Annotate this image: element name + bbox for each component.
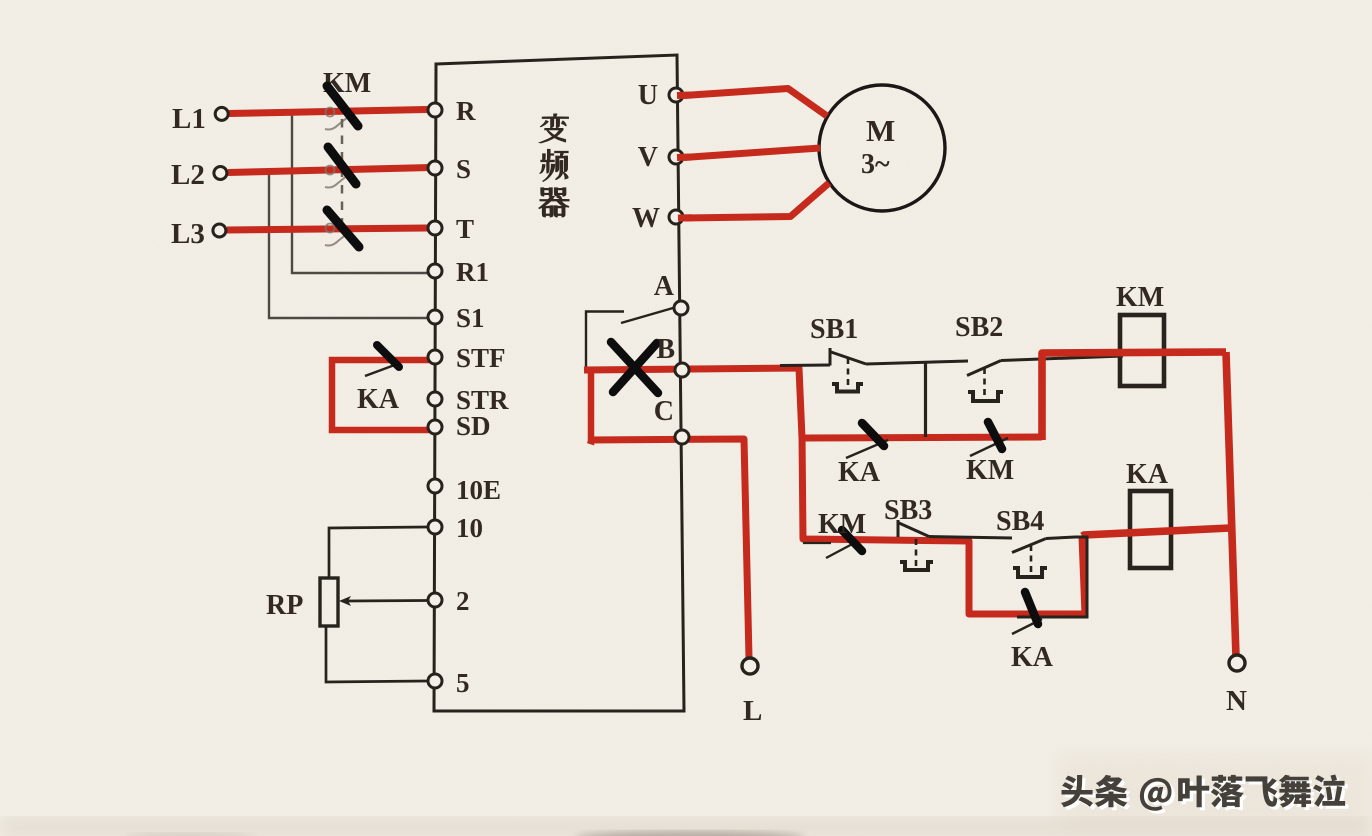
inverter U1 变频器 box: [434, 55, 684, 711]
wire SB2 to KM coil printed: [1001, 356, 1123, 361]
svg-text:S1: S1: [456, 303, 485, 333]
terminal L: [742, 658, 762, 727]
svg-text:KA: KA: [838, 457, 881, 488]
svg-text:KM: KM: [966, 455, 1014, 486]
svg-text:10E: 10E: [456, 475, 501, 505]
terminal R1: [428, 257, 489, 287]
contactor KM main contacts (faint printed symbols): [325, 108, 348, 246]
wire printed under lower red: [803, 542, 831, 544]
svg-text:5: 5: [456, 668, 470, 698]
pushbutton SB2 (NO start): [955, 312, 1003, 401]
svg-text:U: U: [638, 80, 658, 111]
svg-text:V: V: [638, 142, 658, 173]
wire 5-RP: [326, 626, 429, 682]
svg-text:KM: KM: [1116, 282, 1164, 313]
terminal R: [428, 96, 476, 126]
relay contact A (inverter run output): [586, 308, 673, 368]
contactor contact KM (latch): [966, 422, 1014, 486]
pushbutton SB4 (NO): [996, 506, 1047, 577]
wire 10-RP: [329, 527, 429, 578]
relay contact KA (STF) mark: [377, 345, 399, 367]
potentiometer RP: [320, 578, 338, 626]
terminal 10: [428, 513, 483, 543]
watermark 头条@叶落飞舞泣: [1061, 774, 1348, 813]
wire RP wiper arrow from 2: [339, 596, 428, 606]
relay contact KA (SB4 parallel): [1011, 592, 1054, 673]
wire C red to L: [588, 439, 749, 658]
terminal N: [1226, 655, 1247, 717]
wire W red stub: [678, 214, 692, 221]
terminal L1: [172, 103, 228, 135]
relay contact KA (latch): [838, 423, 888, 488]
terminal V: [638, 142, 683, 173]
svg-text:SB4: SB4: [996, 506, 1044, 537]
pushbutton SB3 (NC): [884, 495, 933, 570]
svg-text:10: 10: [456, 513, 483, 543]
contactor KM contact mark phase R: [327, 86, 358, 126]
X mark over B contact: [611, 342, 658, 393]
motor M1: [819, 85, 945, 211]
wire latch branch to KM coil red: [1042, 352, 1226, 440]
terminal SD: [428, 411, 491, 441]
terminal 10E: [428, 475, 501, 505]
svg-text:L1: L1: [172, 103, 206, 135]
terminal L2: [171, 159, 227, 191]
wire V-motor red: [684, 148, 820, 158]
label KM (main contacts): [323, 68, 371, 99]
svg-text:L2: L2: [171, 159, 205, 191]
svg-text:STF: STF: [456, 343, 506, 373]
terminal W: [632, 203, 683, 234]
svg-text:R: R: [456, 96, 476, 126]
svg-text:SB2: SB2: [955, 312, 1003, 343]
relay contact KA (STF) blade: [365, 363, 400, 376]
wire W-motor red: [684, 183, 829, 218]
wire S1 tap: [269, 171, 429, 318]
contactor KM contact mark phase S: [328, 147, 356, 184]
wire SB1-SB2 printed: [866, 361, 968, 364]
svg-text:L: L: [743, 695, 762, 727]
terminal STR: [428, 385, 509, 415]
junction wire SB1/SB2 to latch branch: [924, 362, 927, 437]
contactor KM contact mark phase T: [327, 210, 359, 247]
wire B red bus to control: [584, 368, 1042, 438]
svg-text:KA: KA: [357, 384, 400, 415]
wire L1-R red: [229, 110, 429, 114]
wire SB4 right to KA coil red: [1082, 528, 1230, 536]
wire U-motor red: [684, 89, 827, 117]
wire B bus down-left red (lower row): [802, 435, 1085, 614]
terminal B: [656, 334, 689, 377]
svg-text:KM: KM: [818, 509, 866, 540]
svg-text:KA: KA: [1126, 459, 1169, 490]
svg-text:T: T: [456, 214, 474, 244]
label RP: [266, 590, 303, 621]
pushbutton SB1 (NC stop): [810, 314, 866, 392]
svg-text:C: C: [654, 396, 674, 427]
terminal STF: [428, 343, 506, 373]
terminal L3: [171, 218, 226, 250]
svg-text:M: M: [866, 113, 895, 148]
svg-text:B: B: [656, 334, 675, 365]
terminal 2: [428, 586, 470, 616]
svg-text:W: W: [632, 203, 660, 234]
wire B-C red loop: [588, 371, 591, 441]
svg-text:SB1: SB1: [810, 314, 858, 345]
relay coil KA: [1126, 459, 1171, 568]
wire L2-S red: [228, 168, 429, 173]
terminal S1: [428, 303, 485, 333]
terminal T: [428, 214, 474, 244]
terminal 5: [428, 668, 470, 698]
svg-text:N: N: [1226, 685, 1247, 717]
wire SB3-SB4 printed: [929, 537, 1012, 539]
terminal A: [654, 271, 688, 315]
svg-text:L3: L3: [171, 218, 205, 250]
svg-text:S: S: [456, 154, 471, 184]
contactor coil KM: [1116, 282, 1164, 386]
svg-text:2: 2: [456, 586, 470, 616]
wire V red stub: [677, 154, 692, 162]
svg-text:A: A: [654, 271, 675, 302]
label 变频器: [539, 114, 569, 217]
label KA (STF contact): [357, 384, 400, 415]
wire B to SB1 printed: [780, 364, 830, 368]
terminal C: [654, 396, 689, 444]
svg-text:KA: KA: [1011, 642, 1054, 673]
wire R1 tap: [292, 111, 429, 273]
wire STF-KA-SD red loop: [332, 360, 429, 430]
terminal S: [428, 154, 471, 184]
svg-text:RP: RP: [266, 590, 303, 621]
wire L3-T red: [227, 228, 429, 230]
svg-text:R1: R1: [456, 257, 489, 287]
svg-text:SB3: SB3: [884, 495, 932, 526]
contactor contact KM (lower row): [818, 509, 866, 558]
wire SB4 to junction printed: [1017, 537, 1087, 617]
svg-text:3~: 3~: [861, 149, 890, 180]
wire KM coil to N red: [1226, 352, 1236, 657]
wire U red stub: [677, 92, 692, 100]
terminal U: [638, 80, 683, 111]
svg-text:SD: SD: [456, 411, 491, 441]
